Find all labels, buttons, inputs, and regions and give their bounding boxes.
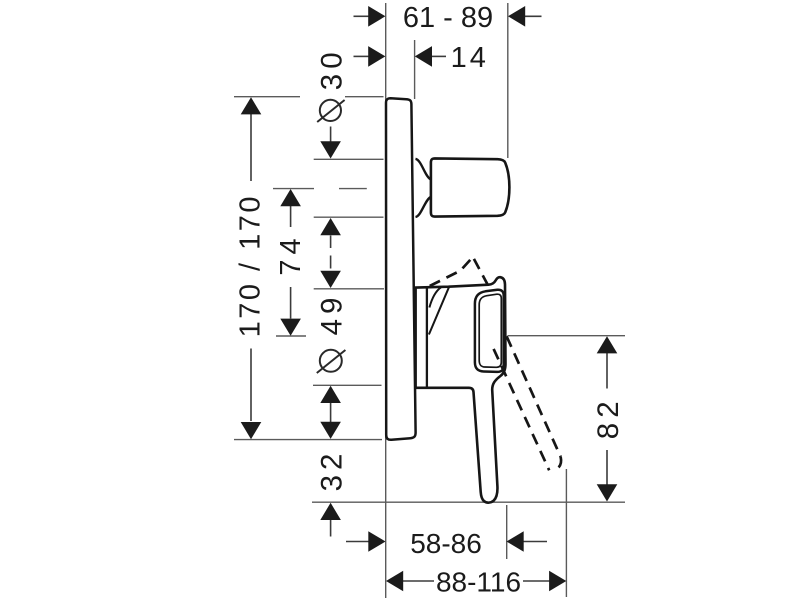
svg-text:88-116: 88-116 — [436, 567, 521, 598]
svg-text:170 / 170: 170 / 170 — [235, 194, 267, 337]
svg-text:49: 49 — [315, 293, 348, 336]
svg-text:61 - 89: 61 - 89 — [403, 2, 493, 34]
svg-text:74: 74 — [275, 233, 307, 275]
svg-text:82: 82 — [592, 396, 625, 439]
svg-text:30: 30 — [315, 47, 348, 90]
svg-text:32: 32 — [315, 449, 348, 492]
svg-text:58-86: 58-86 — [410, 528, 482, 559]
svg-text:14: 14 — [451, 42, 489, 74]
